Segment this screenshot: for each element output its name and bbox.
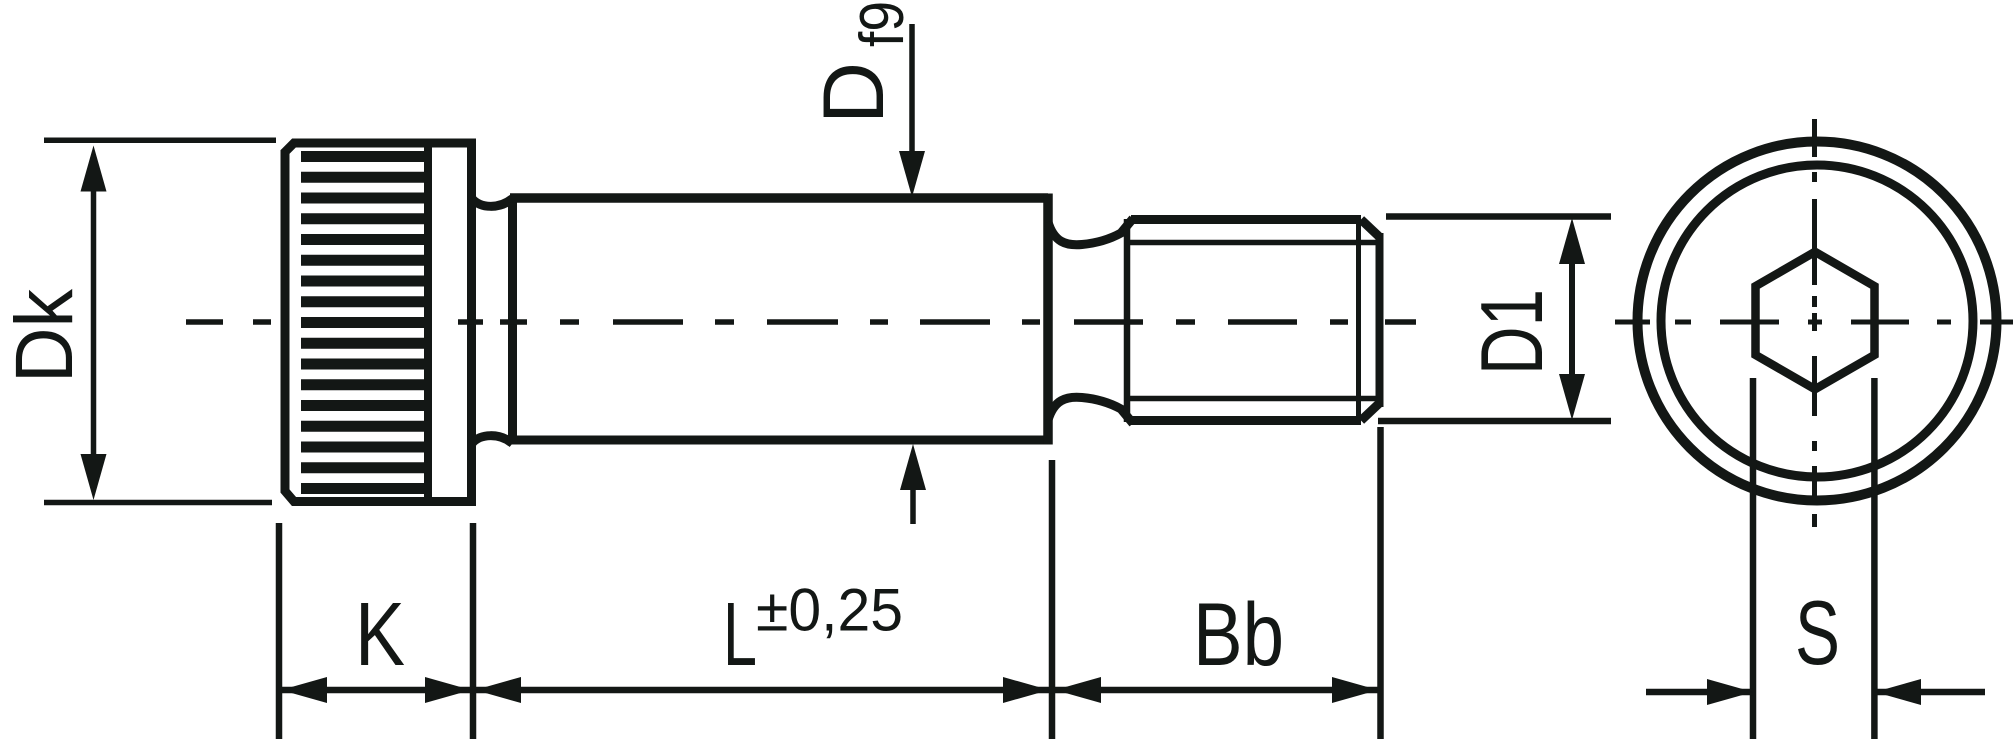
D1 bottom extension line (1378, 418, 1611, 425)
thread crest bottom line (1131, 416, 1361, 425)
D f9 leader arrow (up to shoulder bottom) (910, 475, 916, 524)
D1 dimension line (1569, 232, 1575, 406)
knurl stripes (301, 157, 428, 489)
shoulder bottom line (510, 436, 1048, 445)
S left arrowhead (1707, 679, 1753, 705)
Dk top arrowhead (81, 146, 107, 192)
S right extension line (1871, 378, 1878, 739)
shoulder top line (510, 193, 1048, 203)
D1 bottom arrowhead (1559, 374, 1585, 420)
circle horizontal centerline (1615, 320, 2013, 325)
D1 top extension line (1386, 213, 1611, 220)
K left arrowhead (281, 677, 327, 703)
circle vertical centerline (1812, 119, 1817, 527)
svg-text:K: K (355, 585, 405, 685)
thread end face (1376, 233, 1384, 407)
S dimension line right segment (1874, 689, 1985, 696)
thread root bottom line (1130, 396, 1376, 402)
K/L shared extension line (470, 523, 477, 739)
thread undercut top curve (1048, 219, 1133, 245)
svg-text:Bb: Bb (1193, 584, 1284, 684)
Dk bottom arrowhead (81, 454, 107, 500)
svg-text:±0,25: ±0,25 (756, 577, 903, 644)
D1 top arrowhead (1559, 218, 1585, 264)
S dimension line left segment (1646, 689, 1753, 696)
neck relief bottom curve (472, 436, 513, 444)
thread root top line (1130, 240, 1376, 246)
bottom dimension line K-L-Bb (281, 687, 1378, 694)
screw head (side view, knurled) (285, 143, 472, 502)
knurl boundary line (424, 143, 432, 501)
thread end chamfer start line (1356, 222, 1361, 418)
svg-text:S: S (1795, 583, 1840, 684)
svg-text:f9: f9 (848, 1, 917, 47)
svg-text:L: L (723, 585, 757, 685)
S right arrowhead (1875, 679, 1921, 705)
shoulder left face (508, 199, 517, 443)
K left extension line (276, 523, 283, 739)
L/Bb shared extension line (1049, 460, 1056, 739)
Bb left arrowhead (1055, 677, 1101, 703)
Dk bottom extension line (44, 500, 272, 506)
hex socket (1756, 252, 1875, 389)
thread end bottom chamfer (1361, 404, 1379, 421)
svg-text:D: D (806, 62, 902, 124)
svg-text:Dk: Dk (0, 288, 90, 383)
L left arrowhead (475, 677, 521, 703)
svg-text:D1: D1 (1462, 289, 1561, 375)
L right arrowhead (1003, 677, 1049, 703)
Bb right arrowhead (1332, 677, 1378, 703)
thread end top chamfer (1361, 220, 1379, 237)
thread start vertical line (1124, 219, 1131, 422)
Bb right extension line (1377, 427, 1384, 739)
thread crest top line (1131, 215, 1361, 224)
hex center cross (1808, 320, 1822, 325)
end view inner circle (1661, 165, 1973, 477)
K right arrowhead (425, 677, 471, 703)
neck relief top curve (472, 198, 513, 206)
shoulder right face (1043, 194, 1053, 445)
S left extension line (1750, 378, 1757, 739)
Dk dimension line (91, 160, 97, 487)
main axis centerline (186, 319, 1416, 325)
thread undercut bottom curve (1048, 397, 1133, 423)
Dk top extension line (44, 137, 276, 143)
D f9 leader arrow (down to shoulder top) (909, 24, 915, 165)
end view outer circle (1638, 142, 1997, 501)
